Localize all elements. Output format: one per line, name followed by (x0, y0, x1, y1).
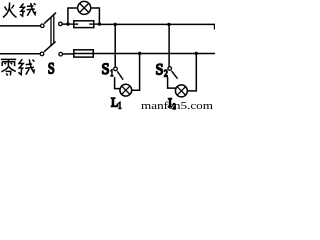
switch S1 lever (117, 71, 123, 79)
wire S1 to lamp L1 (115, 77, 121, 89)
switch S1 terminal (114, 67, 118, 71)
node junction left of fuse (66, 22, 69, 25)
switch S2 terminal (168, 67, 172, 71)
wire L1 up to neutral (132, 54, 140, 91)
svg-text:S: S (156, 61, 164, 78)
fuse FU2 through wire + neutral rail right (74, 53, 215, 55)
node junction right of fuse (98, 22, 101, 25)
svg-text:manfen5.com: manfen5.com (141, 101, 213, 111)
switch S pole2 lever (44, 42, 56, 52)
switch S pole1 left terminal (41, 24, 45, 28)
node branch1 top (114, 23, 117, 26)
fuse FU1 rectangle (74, 21, 94, 28)
wire live-left (0, 25, 40, 27)
fuse FU2 rectangle (74, 50, 94, 57)
svg-text:S: S (48, 60, 55, 77)
switch S pole2 left terminal (40, 52, 44, 56)
node branch1 lamp-return on neutral (138, 52, 141, 55)
wire right-edge stub (213, 24, 215, 29)
lamp over fuse (78, 1, 91, 14)
switch S pole1 lever (44, 13, 56, 24)
wire neutral to fuse2 (63, 53, 74, 55)
wire lamp branch down-right (91, 8, 99, 24)
node branch2 top (167, 23, 170, 26)
lamp L1 (120, 84, 132, 96)
svg-text:1: 1 (118, 101, 121, 111)
wire S2 to lamp L2 (168, 77, 177, 88)
switch S pole1 right terminal (59, 22, 63, 26)
wire branch1 drop (114, 24, 116, 67)
node branch2 lamp-return on neutral (195, 52, 198, 55)
label 零线 (neutral wire) (1, 59, 35, 75)
svg-text:S: S (102, 61, 110, 78)
switch S pole2 right terminal (59, 52, 63, 56)
wire neutral-left (0, 53, 40, 55)
wire lamp branch up-left (68, 8, 77, 24)
wire live to junction (62, 23, 68, 25)
label 火线 (live wire) (3, 3, 36, 18)
switch S handle bar line1 (50, 17, 52, 46)
switch S handle bar line2 (53, 15, 55, 44)
svg-text:1: 1 (110, 69, 113, 79)
fuse FU1 lead ticks (68, 23, 78, 25)
wire branch2 drop (168, 24, 170, 66)
wire live rail right (99, 23, 215, 25)
lamp L2 (175, 85, 187, 97)
wire L2 up to neutral (187, 54, 196, 91)
switch S2 lever (172, 71, 178, 79)
